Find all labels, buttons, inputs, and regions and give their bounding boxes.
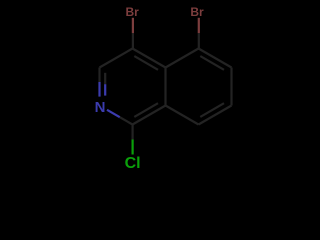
bond C5-Br2 (gray half / red half) xyxy=(198,33,200,48)
molecule: 4,5-dibromo-1-chloroisoquinoline on black background xyxy=(0,0,300,176)
bond C5=C6 inner line xyxy=(200,56,224,70)
bond C4-C3 (single) xyxy=(100,49,133,68)
bond C6-C7 (single) xyxy=(230,68,232,106)
bond C4=C4a inner line xyxy=(134,56,158,70)
bond C3=N2 main line (gray half / blue half) xyxy=(98,68,100,83)
bond C3=N2 inner line xyxy=(104,73,106,84)
bond N2-C1 (blue half / gray half) xyxy=(107,110,120,117)
bond C8-C8a (single) xyxy=(166,106,199,125)
svg-text:Br: Br xyxy=(126,5,140,19)
bond C4-Br1 (gray half / red half) xyxy=(132,33,134,48)
bond C7=C8 inner line xyxy=(200,103,224,117)
svg-text:Br: Br xyxy=(190,5,204,19)
bond C8a-C4a (fusion) xyxy=(164,68,166,106)
bond C1=C8a main line xyxy=(133,106,166,125)
svg-text:Cl: Cl xyxy=(125,155,141,172)
svg-text:N: N xyxy=(95,99,106,116)
bond C7=C8 main line xyxy=(199,106,232,125)
bond C4a-C5 (single) xyxy=(166,49,199,68)
bond C1=C8a inner line xyxy=(134,103,158,117)
bond C1-Cl (gray half / green half) xyxy=(132,125,134,140)
bond C4=C4a main line xyxy=(133,49,166,68)
bond C5=C6 main line xyxy=(199,49,232,68)
